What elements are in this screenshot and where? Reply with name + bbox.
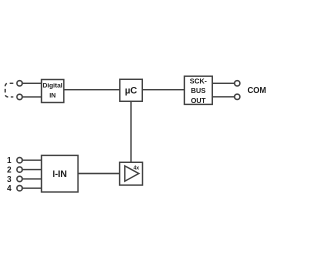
svg-text:4x: 4x (134, 165, 140, 171)
svg-text:SCK-: SCK- (190, 79, 208, 86)
svg-text:IN: IN (49, 93, 56, 100)
svg-text:I-IN: I-IN (52, 169, 67, 179)
svg-text:4: 4 (7, 184, 12, 193)
svg-text:3: 3 (7, 175, 12, 184)
svg-text:µC: µC (125, 85, 137, 96)
svg-text:BUS: BUS (191, 88, 206, 95)
svg-text:2: 2 (7, 166, 12, 175)
svg-text:1: 1 (7, 156, 12, 165)
svg-text:Digital: Digital (43, 83, 63, 90)
svg-text:OUT: OUT (191, 98, 207, 105)
svg-text:COM: COM (247, 86, 266, 95)
